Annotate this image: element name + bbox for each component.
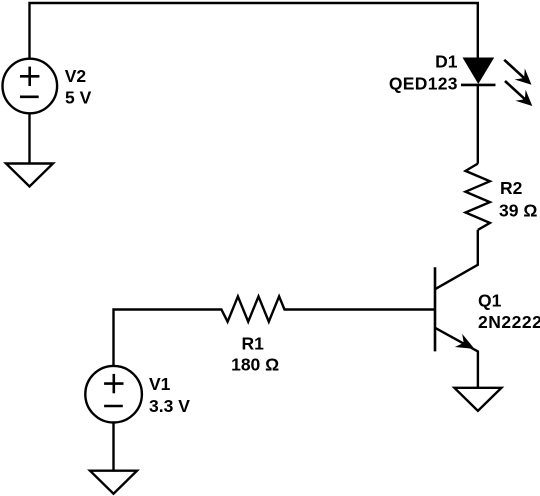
svg-text:2N2222: 2N2222 — [478, 312, 540, 332]
svg-text:Q1: Q1 — [478, 291, 502, 311]
svg-text:QED123: QED123 — [389, 74, 458, 94]
svg-text:V1: V1 — [149, 374, 171, 394]
svg-text:180 Ω: 180 Ω — [231, 355, 279, 375]
svg-text:39 Ω: 39 Ω — [499, 200, 537, 220]
svg-text:3.3 V: 3.3 V — [149, 396, 190, 416]
svg-text:5 V: 5 V — [65, 88, 92, 108]
svg-text:R2: R2 — [500, 178, 523, 198]
svg-text:R1: R1 — [242, 333, 265, 353]
svg-text:D1: D1 — [435, 52, 458, 72]
svg-text:V2: V2 — [65, 66, 87, 86]
